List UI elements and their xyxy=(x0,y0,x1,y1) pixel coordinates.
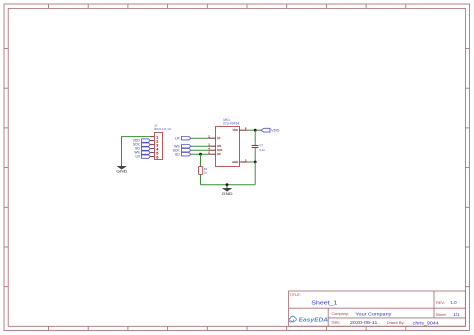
resistor R1 body xyxy=(199,167,203,175)
junction on SD wire at R1 xyxy=(199,153,202,156)
svg-text:SD: SD xyxy=(217,152,221,156)
svg-text:Date:: Date: xyxy=(332,321,341,325)
border ticks top xyxy=(49,4,406,8)
svg-text:VDD: VDD xyxy=(233,128,239,132)
junction bottom GND xyxy=(226,183,229,186)
wire SCK flag to IC xyxy=(191,149,209,151)
svg-text:SD: SD xyxy=(175,152,180,156)
ground symbol left xyxy=(116,164,127,173)
wire IC VDD pin to VDD flag xyxy=(247,129,261,131)
capacitor C1 xyxy=(252,143,259,150)
net flag LR (pin6) xyxy=(135,155,150,159)
wire R1 bottom xyxy=(200,175,202,185)
net flag VDD right xyxy=(261,128,280,133)
wire WS flag to IC xyxy=(191,145,209,147)
IC left pin numbers xyxy=(208,135,210,155)
svg-text:6: 6 xyxy=(156,155,158,159)
title block outline xyxy=(289,291,466,326)
svg-text:EasyEDA: EasyEDA xyxy=(299,318,329,324)
wire C1 bottom xyxy=(254,150,256,162)
net flag WS (pin5) xyxy=(134,151,150,155)
svg-text:GND: GND xyxy=(222,191,233,196)
svg-text:Sheet:: Sheet: xyxy=(436,313,447,317)
wire down right xyxy=(254,162,256,185)
svg-text:LR: LR xyxy=(175,136,180,140)
svg-text:ICS-43434: ICS-43434 xyxy=(223,122,239,126)
connector pin numbers 1-6 xyxy=(156,135,158,159)
IC MK1 ICS-43434 body xyxy=(216,127,240,167)
net flag VDD (pin2) xyxy=(133,139,150,143)
border ticks left xyxy=(4,49,8,287)
svg-text:C1: C1 xyxy=(259,143,263,147)
IC left pin names xyxy=(217,136,223,156)
net flag SD at IC xyxy=(175,152,191,156)
IC left pin stubs xyxy=(208,138,216,154)
IC right pin stubs xyxy=(239,130,247,162)
wire C1 top xyxy=(254,130,256,143)
svg-text:VDD: VDD xyxy=(271,128,280,133)
connector J? body xyxy=(155,133,163,160)
svg-text:Company:: Company: xyxy=(332,312,349,316)
border ticks right xyxy=(465,49,469,287)
svg-text:Sheet_1: Sheet_1 xyxy=(311,300,337,306)
svg-text:Drawn By:: Drawn By: xyxy=(387,321,405,325)
net flag SD (pin4) xyxy=(135,147,150,151)
svg-text:chris_9044: chris_9044 xyxy=(413,320,440,325)
svg-text:WS: WS xyxy=(217,144,221,148)
svg-text:Your Company: Your Company xyxy=(355,311,392,316)
svg-text:LR: LR xyxy=(217,136,220,140)
border ticks bottom xyxy=(49,326,406,330)
bottom wire xyxy=(201,184,256,186)
svg-text:1/1: 1/1 xyxy=(453,312,460,317)
svg-text:TITLE:: TITLE: xyxy=(289,293,300,297)
connector pin stubs xyxy=(150,137,154,157)
net flag SCK at IC xyxy=(173,148,191,152)
svg-text:2020-09-11: 2020-09-11 xyxy=(350,320,378,325)
IC right pin numbers xyxy=(245,127,247,163)
svg-text:GND: GND xyxy=(232,160,238,164)
svg-text:1.0: 1.0 xyxy=(450,300,457,305)
svg-text:HDR M 2.54_1x6: HDR M 2.54_1x6 xyxy=(154,127,171,131)
IC right pin names xyxy=(232,128,238,164)
junction VDD/C1 xyxy=(254,129,257,132)
junction GND/C1 xyxy=(254,161,257,164)
svg-text:0.1u: 0.1u xyxy=(259,148,265,152)
ground symbol bottom xyxy=(222,185,233,196)
svg-text:GND: GND xyxy=(116,169,127,174)
wire SD flag to IC xyxy=(191,153,209,155)
svg-text:REV:: REV: xyxy=(436,301,445,305)
wire LR flag to IC xyxy=(191,137,209,139)
wire R1 top xyxy=(200,154,202,166)
net flag SCK (pin3) xyxy=(133,143,150,147)
EasyEDA logo swoosh xyxy=(291,320,294,322)
wire pin1 to GND xyxy=(122,137,151,165)
net flag LR at IC xyxy=(175,136,191,140)
svg-text:SCK: SCK xyxy=(217,148,223,152)
net flag WS at IC xyxy=(174,144,191,148)
EasyEDA logo cloud xyxy=(289,316,296,322)
svg-text:LR: LR xyxy=(135,155,140,159)
wire IC GND pin right xyxy=(247,161,256,163)
